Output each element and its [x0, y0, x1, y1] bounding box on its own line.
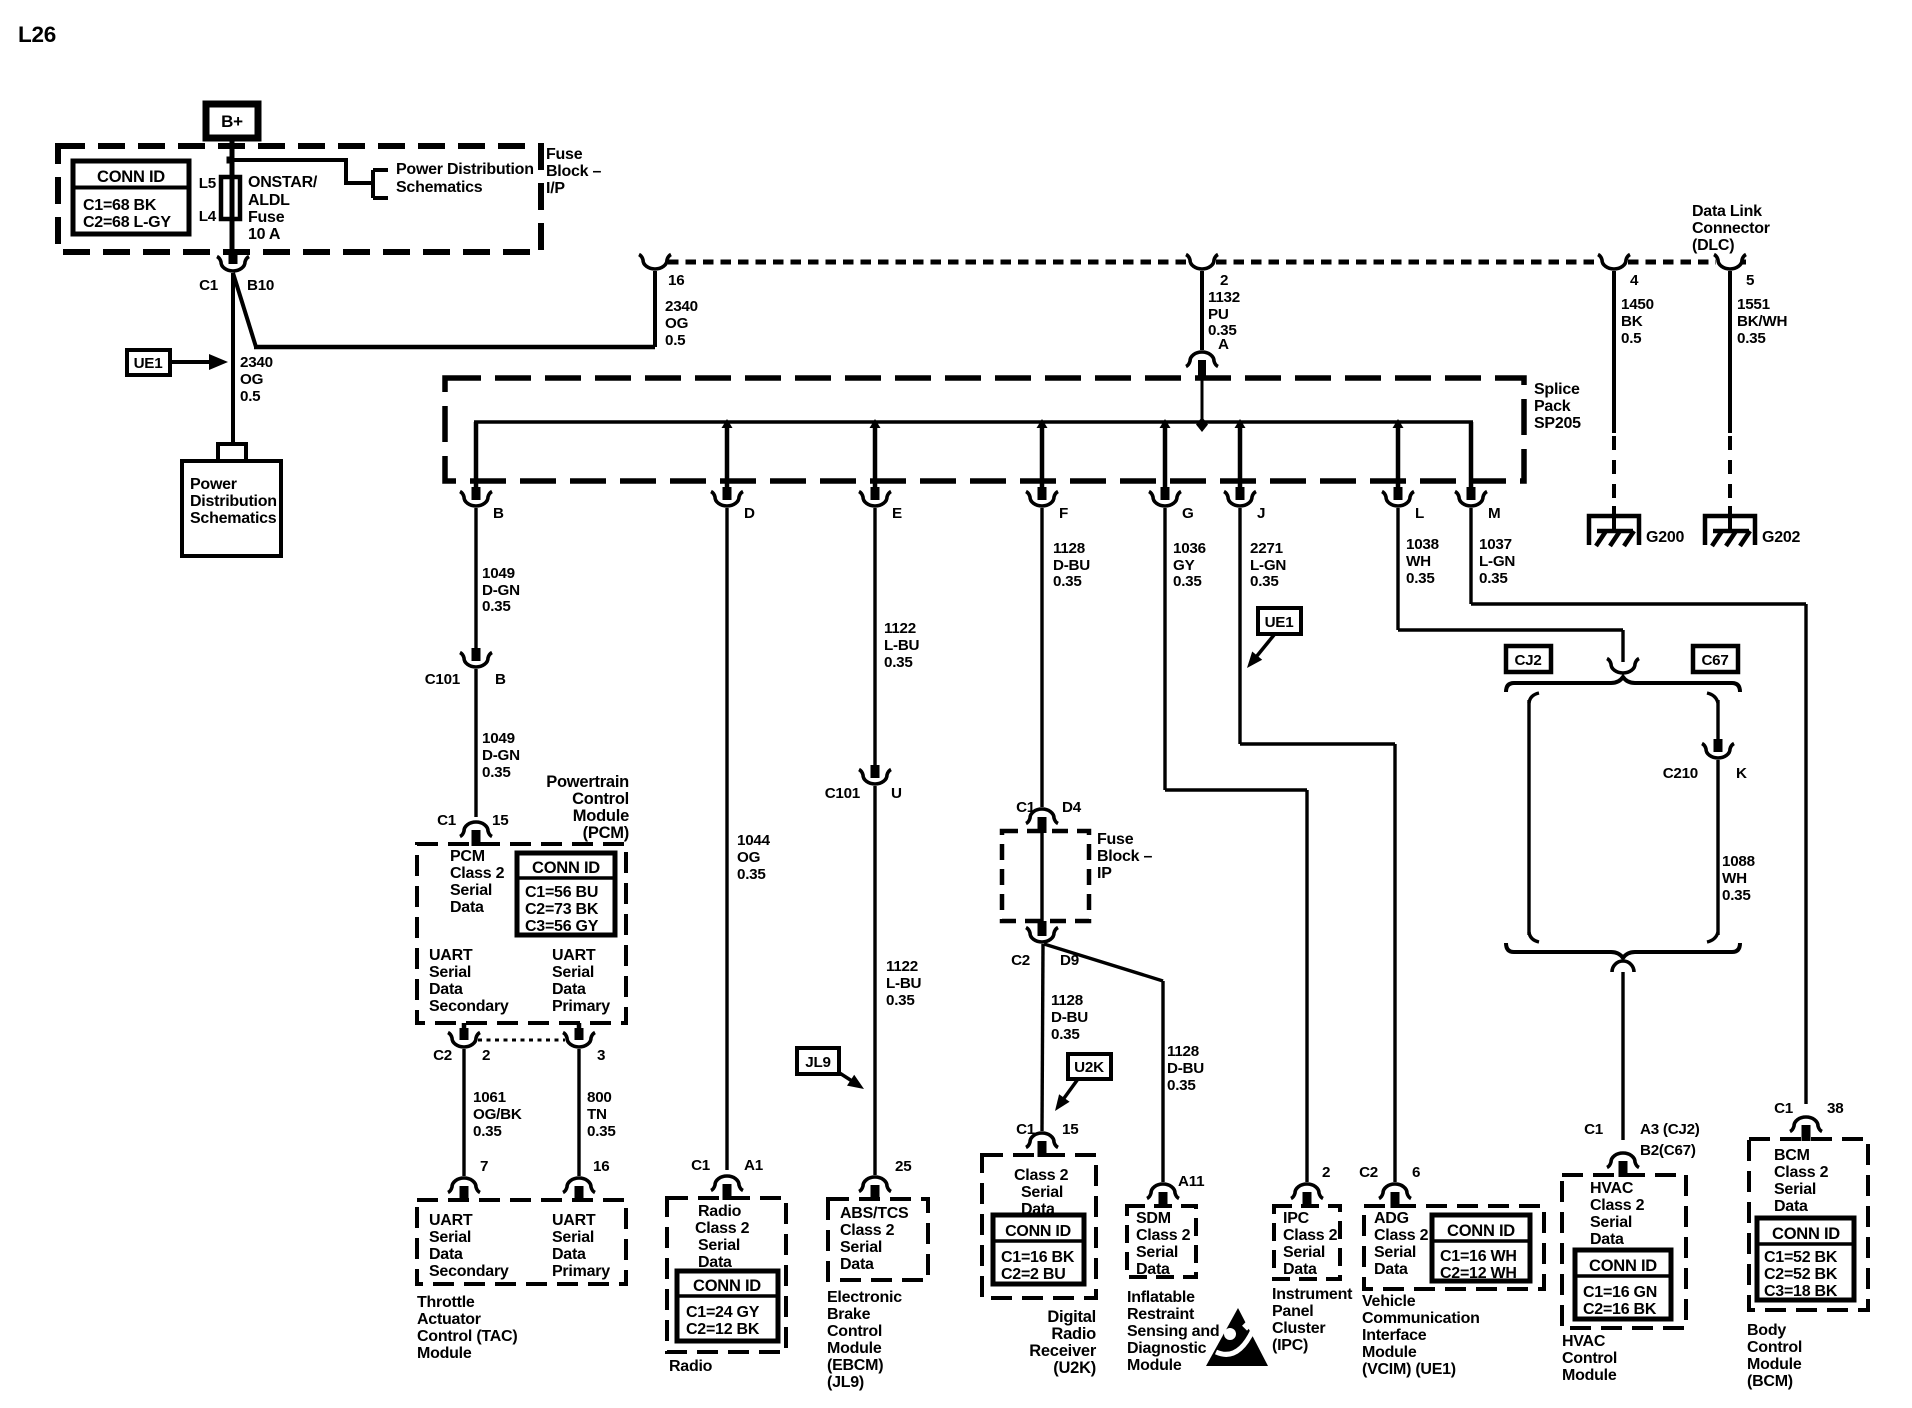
- svg-text:BK: BK: [1621, 313, 1643, 330]
- svg-text:Data: Data: [429, 1246, 463, 1263]
- svg-text:1049: 1049: [482, 730, 515, 747]
- svg-text:IPC: IPC: [1283, 1210, 1310, 1227]
- svg-text:Module: Module: [1747, 1356, 1802, 1373]
- svg-text:Serial: Serial: [1021, 1184, 1063, 1201]
- svg-text:C1: C1: [1774, 1100, 1794, 1117]
- svg-text:0.35: 0.35: [1051, 1026, 1080, 1043]
- svg-text:0.35: 0.35: [587, 1123, 616, 1140]
- svg-text:1128: 1128: [1051, 992, 1083, 1009]
- svg-text:Secondary: Secondary: [429, 998, 509, 1015]
- svg-text:Serial: Serial: [1590, 1214, 1632, 1231]
- svg-text:UE1: UE1: [1265, 614, 1295, 631]
- svg-text:Radio: Radio: [669, 1358, 713, 1375]
- svg-text:0.35: 0.35: [1722, 887, 1751, 904]
- svg-text:1450: 1450: [1621, 296, 1654, 313]
- svg-text:C1: C1: [1584, 1121, 1604, 1138]
- svg-text:Splice: Splice: [1534, 381, 1580, 398]
- svg-text:Serial: Serial: [1374, 1244, 1416, 1261]
- svg-text:16: 16: [593, 1158, 609, 1175]
- svg-text:D4: D4: [1062, 799, 1082, 816]
- svg-text:U2K: U2K: [1074, 1059, 1104, 1076]
- svg-text:C1: C1: [199, 277, 219, 294]
- svg-text:C1=16 BK: C1=16 BK: [1001, 1249, 1075, 1266]
- svg-text:(U2K): (U2K): [1053, 1359, 1096, 1377]
- svg-text:C2=12 BK: C2=12 BK: [686, 1321, 760, 1338]
- svg-text:4: 4: [1630, 272, 1639, 289]
- svg-text:C2=52 BK: C2=52 BK: [1764, 1266, 1838, 1283]
- svg-text:Serial: Serial: [552, 964, 594, 981]
- svg-text:Serial: Serial: [840, 1239, 882, 1256]
- svg-text:Electronic: Electronic: [827, 1289, 902, 1306]
- svg-text:OG: OG: [240, 371, 263, 388]
- svg-text:CONN ID: CONN ID: [532, 859, 600, 877]
- svg-text:0.35: 0.35: [473, 1123, 502, 1140]
- svg-text:C2: C2: [1359, 1164, 1378, 1181]
- svg-text:Schematics: Schematics: [396, 179, 483, 196]
- svg-text:1038: 1038: [1406, 536, 1439, 553]
- svg-text:I/P: I/P: [546, 180, 565, 197]
- svg-text:Module: Module: [827, 1340, 882, 1357]
- svg-text:Fuse: Fuse: [1097, 831, 1134, 848]
- svg-text:C2=73 BK: C2=73 BK: [525, 901, 599, 918]
- svg-text:UART: UART: [429, 1212, 473, 1229]
- svg-text:C2=2 BU: C2=2 BU: [1001, 1266, 1066, 1283]
- svg-text:3: 3: [597, 1047, 605, 1064]
- svg-text:Control: Control: [1747, 1339, 1802, 1356]
- svg-text:L-BU: L-BU: [884, 637, 920, 654]
- svg-text:Serial: Serial: [450, 882, 492, 899]
- svg-text:C2=68 L-GY: C2=68 L-GY: [83, 214, 171, 231]
- svg-text:0.35: 0.35: [1167, 1077, 1196, 1094]
- svg-text:Throttle: Throttle: [417, 1294, 475, 1311]
- svg-text:JL9: JL9: [805, 1054, 830, 1071]
- svg-text:Communication: Communication: [1362, 1310, 1480, 1327]
- svg-text:Data: Data: [1374, 1261, 1408, 1278]
- svg-text:Serial: Serial: [429, 1229, 471, 1246]
- svg-text:0.35: 0.35: [1479, 570, 1508, 587]
- svg-text:0.35: 0.35: [482, 598, 511, 615]
- svg-text:0.35: 0.35: [886, 992, 915, 1009]
- svg-text:800: 800: [587, 1089, 612, 1106]
- svg-text:2: 2: [1220, 272, 1228, 289]
- svg-text:CONN ID: CONN ID: [97, 168, 165, 186]
- svg-text:C3=56 GY: C3=56 GY: [525, 918, 599, 935]
- svg-text:Control: Control: [572, 790, 629, 808]
- svg-text:15: 15: [1062, 1121, 1079, 1138]
- svg-text:5: 5: [1746, 272, 1755, 289]
- svg-text:C1=52 BK: C1=52 BK: [1764, 1249, 1838, 1266]
- svg-text:(PCM): (PCM): [583, 824, 629, 842]
- svg-text:Data: Data: [698, 1254, 732, 1271]
- svg-text:Data: Data: [1136, 1261, 1170, 1278]
- svg-text:Control: Control: [1562, 1350, 1617, 1367]
- svg-text:C210: C210: [1663, 765, 1698, 782]
- svg-text:Power Distribution: Power Distribution: [396, 161, 534, 178]
- svg-text:Pack: Pack: [1534, 398, 1571, 415]
- svg-text:C2: C2: [1011, 952, 1030, 969]
- svg-text:L4: L4: [199, 208, 217, 225]
- svg-text:WH: WH: [1406, 553, 1431, 570]
- svg-text:Radio: Radio: [698, 1203, 742, 1220]
- svg-text:0.35: 0.35: [1173, 573, 1202, 590]
- svg-text:6: 6: [1412, 1164, 1420, 1181]
- svg-text:J: J: [1257, 505, 1265, 522]
- svg-text:Data: Data: [1590, 1231, 1624, 1248]
- svg-text:Inflatable: Inflatable: [1127, 1289, 1195, 1306]
- svg-text:C1: C1: [691, 1157, 711, 1174]
- svg-text:Cluster: Cluster: [1272, 1320, 1325, 1337]
- svg-text:(BCM): (BCM): [1747, 1373, 1793, 1390]
- svg-text:ALDL: ALDL: [248, 192, 290, 209]
- svg-text:B10: B10: [247, 277, 274, 294]
- svg-text:Data: Data: [429, 981, 463, 998]
- svg-text:C101: C101: [825, 785, 861, 802]
- svg-text:Serial: Serial: [429, 964, 471, 981]
- svg-text:Interface: Interface: [1362, 1327, 1427, 1344]
- svg-text:Serial: Serial: [1283, 1244, 1325, 1261]
- svg-text:L-BU: L-BU: [886, 975, 922, 992]
- svg-text:Brake: Brake: [827, 1306, 871, 1323]
- svg-text:C1: C1: [437, 812, 457, 829]
- svg-text:Data Link: Data Link: [1692, 203, 1762, 220]
- svg-text:A1: A1: [744, 1157, 764, 1174]
- svg-text:0.5: 0.5: [240, 388, 261, 405]
- svg-text:0.5: 0.5: [1621, 330, 1642, 347]
- svg-text:1036: 1036: [1173, 540, 1206, 557]
- svg-text:A: A: [1218, 336, 1229, 353]
- svg-text:2: 2: [482, 1047, 490, 1064]
- svg-text:CONN ID: CONN ID: [1447, 1222, 1515, 1240]
- svg-text:Data: Data: [840, 1256, 874, 1273]
- svg-text:C2: C2: [433, 1047, 452, 1064]
- svg-text:Module: Module: [1562, 1367, 1617, 1384]
- svg-text:HVAC: HVAC: [1562, 1333, 1606, 1350]
- svg-text:Data: Data: [552, 1246, 586, 1263]
- svg-text:C1=16 GN: C1=16 GN: [1583, 1284, 1657, 1301]
- svg-text:Instrument: Instrument: [1272, 1286, 1353, 1303]
- svg-text:L-GN: L-GN: [1479, 553, 1515, 570]
- svg-text:OG: OG: [737, 849, 760, 866]
- svg-text:D: D: [744, 505, 755, 522]
- svg-text:A3 (CJ2): A3 (CJ2): [1640, 1121, 1700, 1138]
- svg-text:C3=18 BK: C3=18 BK: [1764, 1283, 1838, 1300]
- svg-text:1551: 1551: [1737, 296, 1771, 313]
- svg-text:U: U: [891, 785, 902, 802]
- svg-text:Actuator: Actuator: [417, 1311, 481, 1328]
- svg-text:ONSTAR/: ONSTAR/: [248, 174, 318, 191]
- svg-text:F: F: [1059, 505, 1068, 522]
- svg-text:Class 2: Class 2: [1136, 1227, 1191, 1244]
- svg-text:Module: Module: [573, 807, 629, 825]
- svg-text:2340: 2340: [665, 298, 698, 315]
- svg-text:Restraint: Restraint: [1127, 1306, 1195, 1323]
- svg-text:Powertrain: Powertrain: [546, 773, 629, 791]
- svg-text:0.35: 0.35: [1406, 570, 1435, 587]
- svg-text:C1=56 BU: C1=56 BU: [525, 884, 598, 901]
- svg-text:1037: 1037: [1479, 536, 1512, 553]
- svg-text:Data: Data: [1774, 1198, 1808, 1215]
- svg-text:Body: Body: [1747, 1322, 1786, 1339]
- svg-text:25: 25: [895, 1158, 912, 1175]
- svg-text:Class 2: Class 2: [450, 865, 505, 882]
- svg-text:B: B: [493, 505, 504, 522]
- svg-text:1088: 1088: [1722, 853, 1755, 870]
- svg-text:1128: 1128: [1167, 1043, 1199, 1060]
- svg-text:Module: Module: [417, 1345, 472, 1362]
- svg-text:Serial: Serial: [698, 1237, 740, 1254]
- svg-text:PU: PU: [1208, 306, 1229, 323]
- svg-text:E: E: [892, 505, 902, 522]
- svg-text:Data: Data: [450, 899, 484, 916]
- svg-text:TN: TN: [587, 1106, 607, 1123]
- svg-text:Sensing and: Sensing and: [1127, 1323, 1219, 1340]
- svg-text:38: 38: [1827, 1100, 1843, 1117]
- svg-text:L5: L5: [199, 175, 217, 192]
- svg-text:G200: G200: [1646, 529, 1684, 546]
- svg-text:Data: Data: [552, 981, 586, 998]
- svg-text:Class 2: Class 2: [1590, 1197, 1645, 1214]
- svg-text:SP205: SP205: [1534, 415, 1581, 432]
- svg-text:Primary: Primary: [552, 998, 610, 1015]
- svg-text:0.35: 0.35: [482, 764, 511, 781]
- svg-text:Primary: Primary: [552, 1263, 610, 1280]
- svg-text:Serial: Serial: [1136, 1244, 1178, 1261]
- svg-text:1128: 1128: [1053, 540, 1085, 557]
- svg-text:(VCIM) (UE1): (VCIM) (UE1): [1362, 1361, 1456, 1378]
- svg-text:G: G: [1182, 505, 1194, 522]
- svg-text:C1=16 WH: C1=16 WH: [1440, 1248, 1517, 1265]
- svg-text:ADG: ADG: [1374, 1210, 1409, 1227]
- svg-text:Distribution: Distribution: [190, 493, 277, 510]
- svg-text:C2=12 WH: C2=12 WH: [1440, 1265, 1517, 1282]
- svg-text:CONN ID: CONN ID: [693, 1277, 761, 1295]
- svg-text:OG/BK: OG/BK: [473, 1106, 522, 1123]
- svg-text:CJ2: CJ2: [1514, 652, 1541, 669]
- svg-text:Diagnostic: Diagnostic: [1127, 1340, 1207, 1357]
- svg-text:D-GN: D-GN: [482, 747, 520, 764]
- svg-text:WH: WH: [1722, 870, 1747, 887]
- svg-text:Serial: Serial: [552, 1229, 594, 1246]
- svg-text:UART: UART: [429, 947, 473, 964]
- svg-text:L: L: [1415, 505, 1424, 522]
- svg-text:Fuse: Fuse: [546, 146, 583, 163]
- svg-text:B2(C67): B2(C67): [1640, 1142, 1696, 1159]
- svg-text:Class 2: Class 2: [1014, 1167, 1069, 1184]
- svg-text:C1=68 BK: C1=68 BK: [83, 197, 157, 214]
- svg-text:Vehicle: Vehicle: [1362, 1293, 1416, 1310]
- svg-text:B: B: [495, 671, 506, 688]
- svg-text:0.35: 0.35: [737, 866, 766, 883]
- svg-text:(IPC): (IPC): [1272, 1337, 1308, 1354]
- svg-text:Class 2: Class 2: [840, 1222, 895, 1239]
- svg-text:1132: 1132: [1208, 289, 1240, 306]
- svg-text:(JL9): (JL9): [827, 1374, 864, 1391]
- svg-text:Panel: Panel: [1272, 1303, 1313, 1320]
- svg-text:D-GN: D-GN: [482, 582, 520, 599]
- svg-text:CONN ID: CONN ID: [1005, 1223, 1071, 1240]
- svg-text:GY: GY: [1173, 557, 1195, 574]
- svg-text:2: 2: [1322, 1164, 1330, 1181]
- svg-text:Data: Data: [1283, 1261, 1317, 1278]
- svg-text:B+: B+: [221, 112, 243, 131]
- svg-text:CONN ID: CONN ID: [1589, 1257, 1657, 1275]
- svg-text:IP: IP: [1097, 865, 1112, 882]
- svg-text:10 A: 10 A: [248, 226, 281, 243]
- svg-text:D-BU: D-BU: [1053, 557, 1090, 574]
- svg-text:UART: UART: [552, 1212, 596, 1229]
- svg-text:L26: L26: [18, 22, 56, 47]
- svg-text:OG: OG: [665, 315, 688, 332]
- svg-text:1122: 1122: [884, 620, 916, 637]
- svg-text:CONN ID: CONN ID: [1772, 1225, 1840, 1243]
- svg-text:(DLC): (DLC): [1692, 237, 1734, 254]
- svg-text:Class 2: Class 2: [1283, 1227, 1338, 1244]
- svg-text:Fuse: Fuse: [248, 209, 285, 226]
- svg-text:K: K: [1736, 765, 1747, 782]
- svg-text:UART: UART: [552, 947, 596, 964]
- svg-text:(EBCM): (EBCM): [827, 1357, 883, 1374]
- svg-text:C101: C101: [425, 671, 461, 688]
- svg-text:C1=24 GY: C1=24 GY: [686, 1304, 760, 1321]
- svg-text:PCM: PCM: [450, 848, 485, 865]
- svg-text:Module: Module: [1127, 1357, 1182, 1374]
- svg-text:Class 2: Class 2: [1374, 1227, 1429, 1244]
- svg-text:Class 2: Class 2: [695, 1220, 750, 1237]
- svg-text:Control (TAC): Control (TAC): [417, 1328, 517, 1345]
- svg-text:Radio: Radio: [1051, 1325, 1096, 1343]
- svg-text:D-BU: D-BU: [1051, 1009, 1088, 1026]
- svg-text:0.35: 0.35: [1053, 573, 1082, 590]
- svg-text:2340: 2340: [240, 354, 273, 371]
- svg-text:D-BU: D-BU: [1167, 1060, 1204, 1077]
- svg-text:C67: C67: [1701, 652, 1728, 669]
- svg-text:Secondary: Secondary: [429, 1263, 509, 1280]
- svg-text:L-GN: L-GN: [1250, 557, 1286, 574]
- svg-text:15: 15: [492, 812, 509, 829]
- svg-text:BK/WH: BK/WH: [1737, 313, 1787, 330]
- svg-text:Module: Module: [1362, 1344, 1417, 1361]
- svg-text:1061: 1061: [473, 1089, 507, 1106]
- svg-text:1049: 1049: [482, 565, 515, 582]
- svg-text:Connector: Connector: [1692, 220, 1770, 237]
- svg-text:C2=16 BK: C2=16 BK: [1583, 1301, 1657, 1318]
- svg-text:Schematics: Schematics: [190, 510, 277, 527]
- svg-text:0.5: 0.5: [665, 332, 686, 349]
- svg-text:Block –: Block –: [546, 163, 602, 180]
- svg-text:Control: Control: [827, 1323, 882, 1340]
- svg-text:BCM: BCM: [1774, 1147, 1810, 1164]
- svg-text:Digital: Digital: [1047, 1308, 1096, 1326]
- svg-text:2271: 2271: [1250, 540, 1284, 557]
- svg-text:0.35: 0.35: [1737, 330, 1766, 347]
- svg-text:Power: Power: [190, 476, 237, 493]
- svg-text:16: 16: [668, 272, 684, 289]
- svg-text:Serial: Serial: [1774, 1181, 1816, 1198]
- svg-text:0.35: 0.35: [1250, 573, 1279, 590]
- svg-text:Block –: Block –: [1097, 848, 1153, 865]
- svg-text:Class 2: Class 2: [1774, 1164, 1829, 1181]
- svg-text:A11: A11: [1178, 1173, 1205, 1190]
- svg-text:0.35: 0.35: [884, 654, 913, 671]
- svg-text:UE1: UE1: [134, 355, 164, 372]
- svg-text:HVAC: HVAC: [1590, 1180, 1634, 1197]
- svg-text:ABS/TCS: ABS/TCS: [840, 1205, 909, 1222]
- svg-text:M: M: [1488, 505, 1500, 522]
- svg-text:SDM: SDM: [1136, 1210, 1171, 1227]
- svg-text:7: 7: [480, 1158, 488, 1175]
- svg-text:1122: 1122: [886, 958, 918, 975]
- svg-text:G202: G202: [1762, 529, 1800, 546]
- svg-text:1044: 1044: [737, 832, 771, 849]
- svg-text:Receiver: Receiver: [1029, 1342, 1097, 1360]
